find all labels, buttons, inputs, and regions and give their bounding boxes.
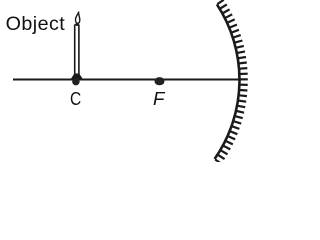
concave mirror arc <box>215 4 240 159</box>
candle object body <box>75 25 79 76</box>
candle flame <box>75 12 79 24</box>
point F (focal point dot) <box>155 77 165 85</box>
candle wick <box>76 23 78 26</box>
mirror hatching <box>215 0 248 164</box>
label C <box>70 88 81 110</box>
principal axis <box>13 79 240 81</box>
label F <box>153 88 164 110</box>
label Object <box>6 13 66 36</box>
candle base <box>72 74 82 78</box>
point C (center of curvature dot) <box>72 78 80 86</box>
